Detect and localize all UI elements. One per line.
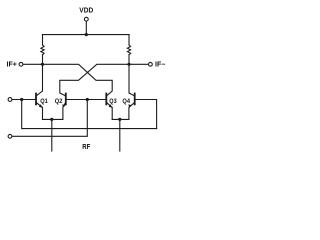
svg-text:IF+: IF+ xyxy=(7,62,17,69)
svg-text:Q1: Q1 xyxy=(40,98,48,105)
svg-text:RF: RF xyxy=(82,144,91,151)
svg-text:Q3: Q3 xyxy=(109,98,117,105)
svg-text:Q4: Q4 xyxy=(122,98,130,105)
svg-text:IF−: IF− xyxy=(155,62,165,69)
svg-text:VDD: VDD xyxy=(79,8,93,15)
svg-text:Q2: Q2 xyxy=(55,98,63,105)
